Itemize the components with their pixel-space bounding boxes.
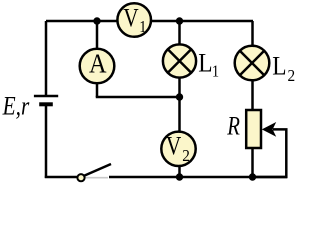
ammeter A: [80, 48, 115, 83]
wire top horizontal: [46, 20, 253, 23]
wire rheostat wiper return: [253, 129, 287, 177]
node dot bottom-V2 junction: [176, 173, 183, 180]
lamp L2: [235, 46, 270, 81]
svg-text:V: V: [166, 133, 181, 161]
switch S: lever: [84, 164, 112, 176]
svg-text:1: 1: [139, 18, 146, 36]
svg-text:V: V: [123, 5, 138, 33]
svg-text:A: A: [89, 48, 107, 78]
wire ammeter bottom to middle junction: [97, 96, 180, 97]
svg-text:L: L: [198, 49, 212, 77]
battery E,r short thick plate: [39, 102, 53, 106]
wire bottom right of switch: [109, 176, 287, 179]
lamp L1: [163, 44, 196, 77]
switch S: open gray contact line: [85, 177, 108, 179]
svg-text:E,r: E,r: [2, 93, 30, 121]
voltmeter V2: [161, 132, 195, 166]
svg-text:2: 2: [288, 67, 296, 85]
node dot bottom-R junction: [249, 173, 256, 180]
svg-text:R: R: [226, 112, 240, 141]
wire right branch vertical x=252.5: [251, 21, 254, 110]
node dot top-A junction: [93, 17, 100, 24]
node dot top-L1 junction: [176, 17, 183, 24]
voltmeter V1: [117, 3, 151, 37]
battery E,r long plate: [34, 95, 58, 98]
wire ammeter branch: vertical from top dot: [96, 21, 99, 97]
wire middle branch vertical x=179.5: [178, 21, 181, 177]
svg-text:2: 2: [182, 147, 190, 165]
wire bottom left to switch: [45, 176, 78, 179]
svg-text:1: 1: [212, 63, 219, 81]
wire rheostat bottom to bottom wire: [251, 148, 254, 177]
svg-text:L: L: [272, 52, 286, 80]
wire left vertical below battery: [45, 104, 48, 178]
rheostat R body: [246, 110, 261, 148]
wire left vertical (battery branch): [45, 21, 48, 96]
switch S: pivot circle: [77, 174, 84, 181]
rheostat wiper arrow: [262, 122, 276, 137]
node dot middle junction: [176, 93, 183, 100]
